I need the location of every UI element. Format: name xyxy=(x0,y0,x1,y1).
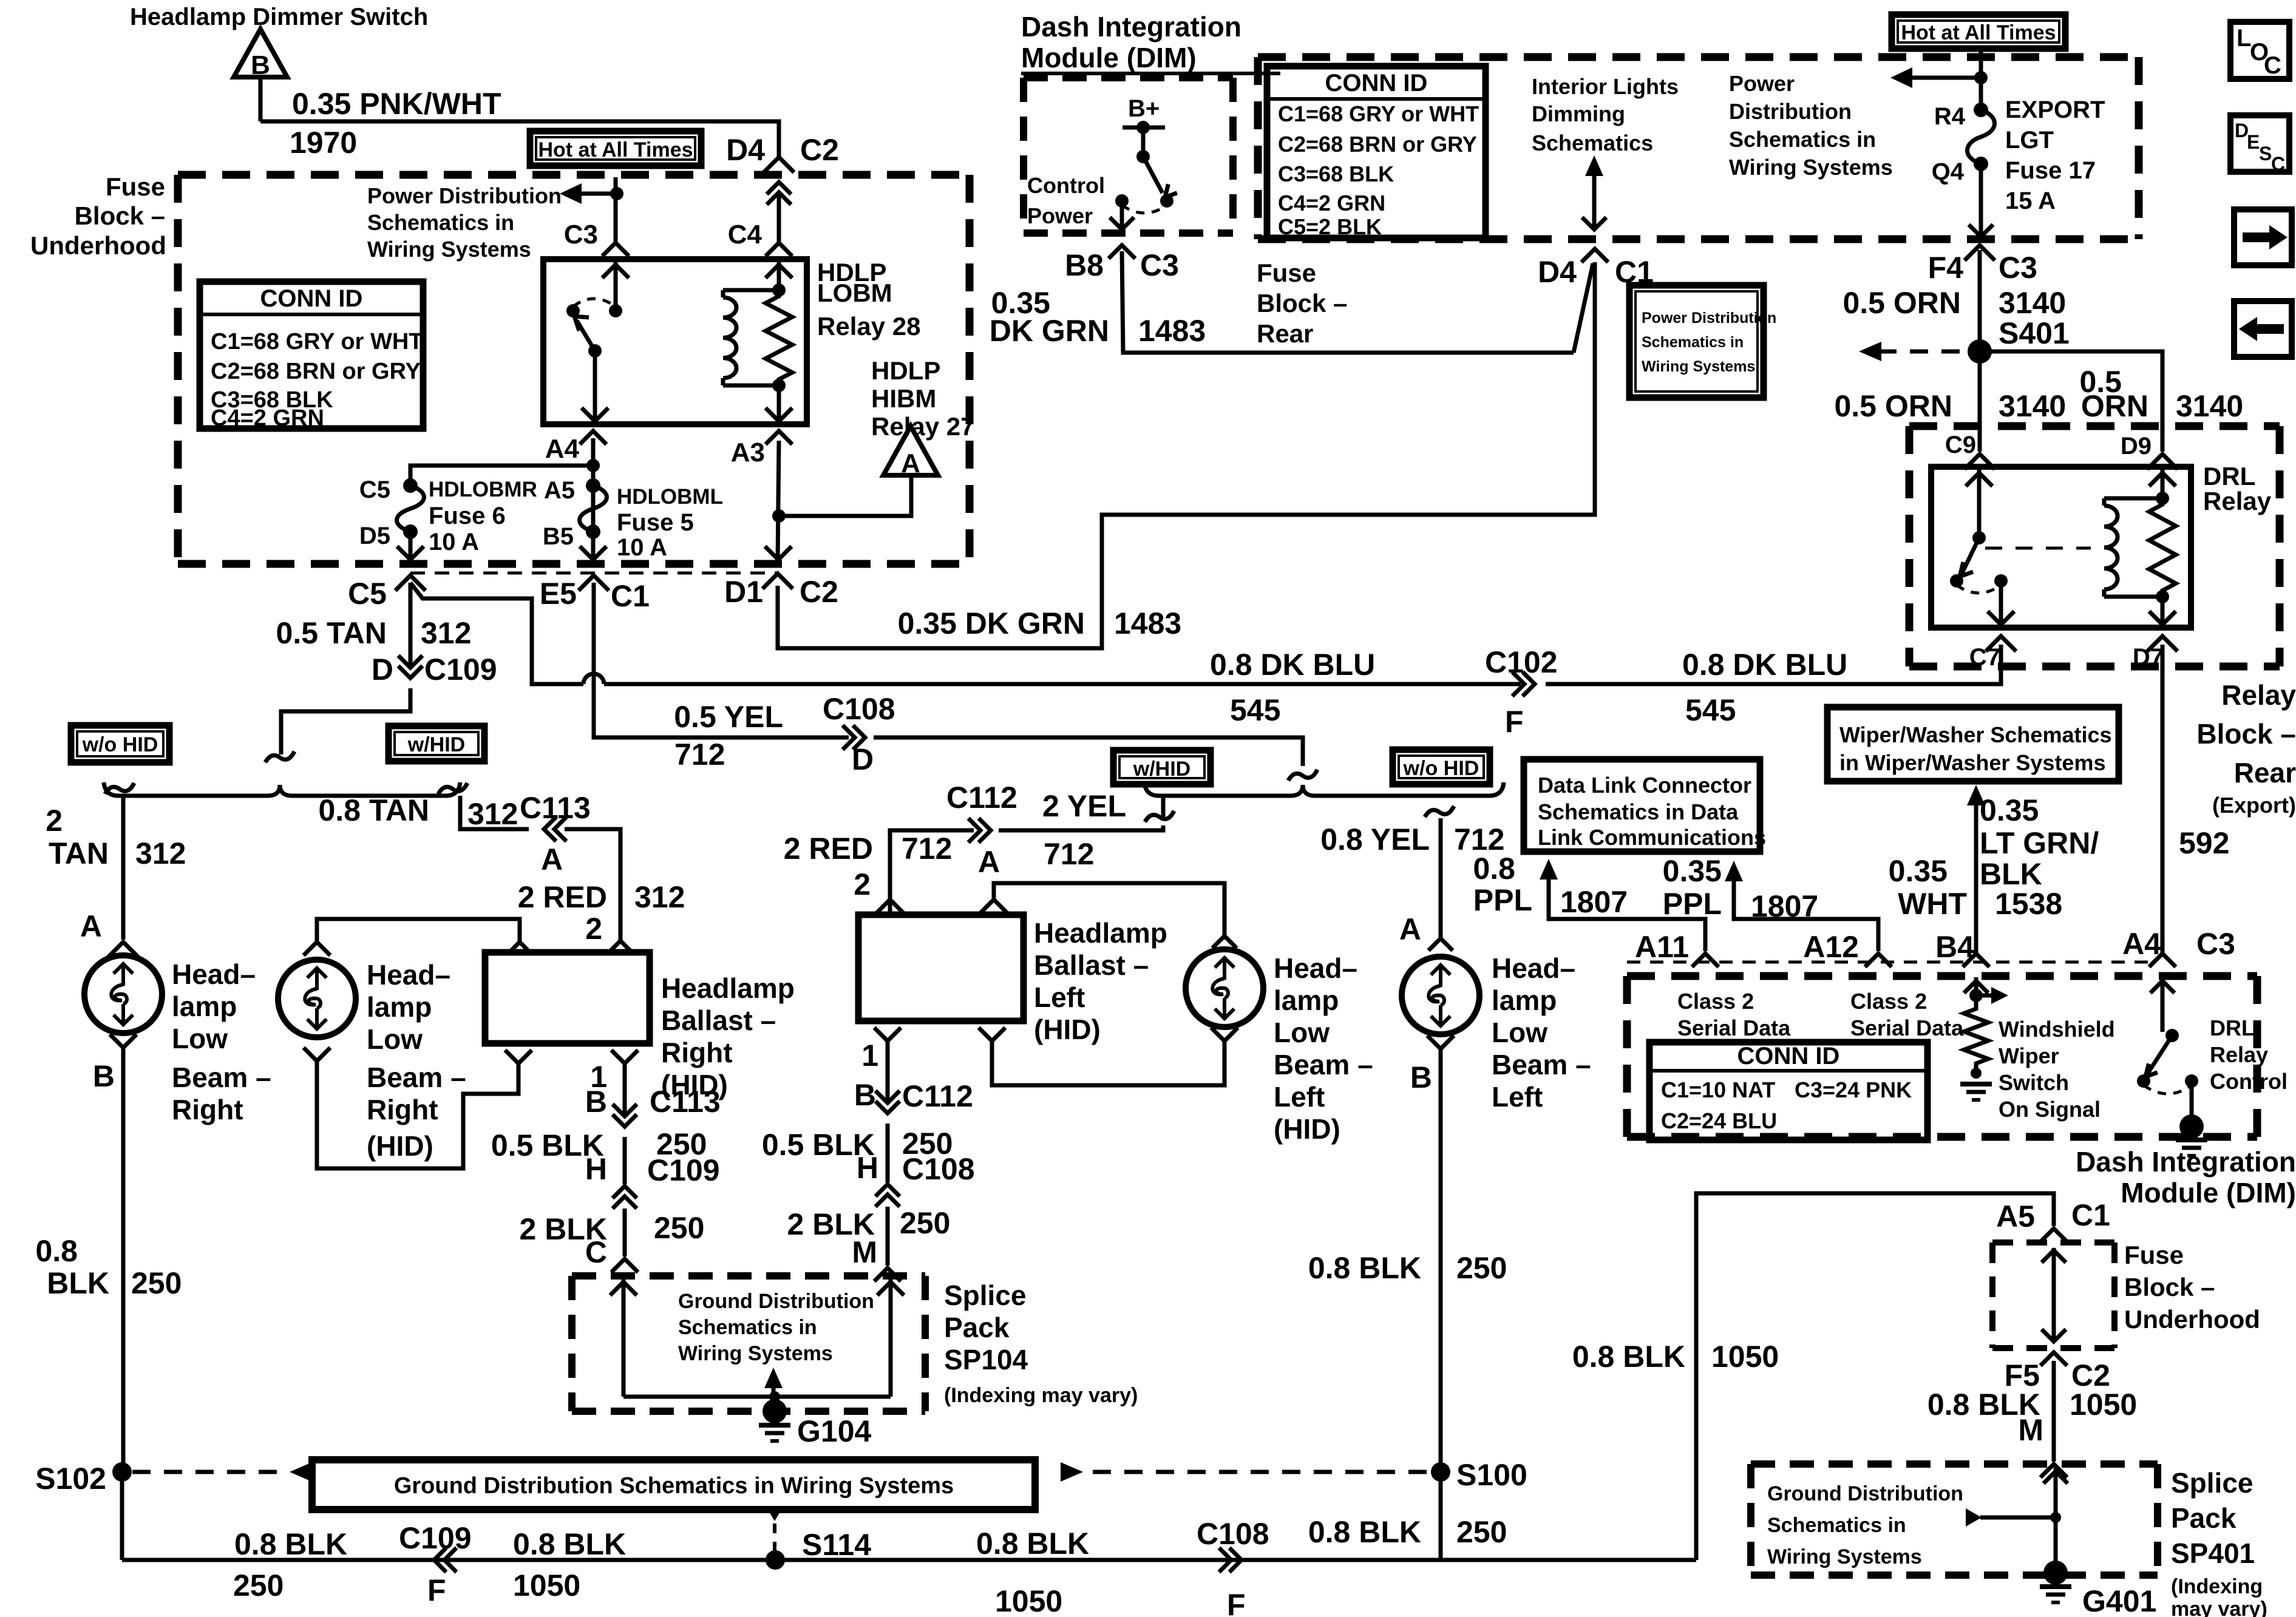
connector C112 A (feed) xyxy=(979,818,991,842)
relay 28 switch contact dot xyxy=(566,304,580,317)
svg-text:D4: D4 xyxy=(1538,255,1577,289)
svg-text:C3=24 PNK: C3=24 PNK xyxy=(1795,1077,1912,1102)
svg-text:Block –: Block – xyxy=(1257,289,1347,317)
svg-text:C2=68 BRN or GRY: C2=68 BRN or GRY xyxy=(1278,132,1477,157)
DIM connector row thin dashes xyxy=(1627,961,2152,964)
wiper switch signal input xyxy=(1974,977,1978,1003)
arrow into ground distribution box (left) xyxy=(290,1462,312,1482)
connector left HID bulb bottom xyxy=(1211,1028,1238,1041)
svg-text:Hot at All Times: Hot at All Times xyxy=(1901,21,2056,44)
svg-text:L: L xyxy=(2237,25,2251,52)
svg-text:WHT: WHT xyxy=(1898,887,1967,921)
svg-text:lamp: lamp xyxy=(1492,985,1557,1016)
svg-text:C112: C112 xyxy=(902,1079,973,1113)
connector C into SP104 xyxy=(611,1259,638,1272)
relay 28 switch blade xyxy=(577,320,595,351)
connector D7 xyxy=(2147,636,2178,651)
svg-text:E: E xyxy=(2247,131,2260,153)
relay box HDLP LOBM Relay 28 xyxy=(543,259,807,424)
relay 28 resistor xyxy=(766,290,792,385)
wire S401 to C9 xyxy=(1978,351,1982,452)
svg-text:0.8 BLK: 0.8 BLK xyxy=(513,1527,626,1561)
svg-text:592: 592 xyxy=(2179,826,2229,860)
connector C9 xyxy=(1965,454,1995,469)
wire ballast left pin B to C112 xyxy=(886,1041,890,1101)
SP104 bus xyxy=(623,1395,891,1399)
wire 0.8 TAN 312 to C113 xyxy=(460,796,529,829)
svg-text:DRL: DRL xyxy=(2210,1015,2255,1040)
svg-text:C109: C109 xyxy=(647,1153,720,1187)
wire C5 to option brace xyxy=(281,688,410,754)
svg-text:R4: R4 xyxy=(1934,103,1966,130)
svg-text:Beam –: Beam – xyxy=(172,1062,271,1093)
wiper pull resistor xyxy=(1964,1003,1988,1070)
svg-text:1538: 1538 xyxy=(1995,887,2062,921)
dashed reference from S401 xyxy=(1878,350,1960,354)
svg-text:B: B xyxy=(1410,1060,1432,1094)
svg-text:Interior Lights: Interior Lights xyxy=(1532,74,1679,99)
option brace 1 xyxy=(104,782,460,796)
svg-text:lamp: lamp xyxy=(1274,985,1339,1016)
splice pack SP104 dashed box xyxy=(572,1272,925,1280)
wire 0.35 WHT 1538 B4 xyxy=(1967,785,1985,805)
svg-text:0.8: 0.8 xyxy=(35,1234,78,1268)
svg-text:F: F xyxy=(427,1573,446,1607)
connector C4 into relay xyxy=(766,243,792,256)
svg-text:C9: C9 xyxy=(1945,432,1976,458)
connector A5/C1 xyxy=(2040,1229,2067,1242)
diagonal into D4/C1 xyxy=(1574,263,1593,353)
connector B left low beam xyxy=(1427,1036,1454,1049)
DRL relay switch contacts xyxy=(1950,574,1963,588)
svg-text:712: 712 xyxy=(1044,837,1094,871)
fuse EXPORT LGT Fuse 17 xyxy=(1974,103,1988,117)
fuse block underhood dashed outline xyxy=(178,171,970,179)
wire 2 RED 712 to left ballast xyxy=(890,830,974,915)
svg-text:Dimming: Dimming xyxy=(1532,101,1625,126)
relay 28 switch dashed arc xyxy=(573,299,616,307)
svg-text:C2: C2 xyxy=(800,575,838,609)
svg-text:F: F xyxy=(1227,1588,1246,1617)
connector C112 (ground side) xyxy=(875,1101,900,1113)
fuse 5 HDLOBML xyxy=(586,478,600,493)
svg-text:ORN: ORN xyxy=(2081,389,2148,423)
svg-text:0.8 BLK: 0.8 BLK xyxy=(976,1527,1089,1561)
svg-text:w/HID: w/HID xyxy=(407,733,465,756)
svg-text:(HID): (HID) xyxy=(367,1130,433,1162)
wire A4 branch to fuse 6 xyxy=(410,466,593,486)
svg-text:Power Distribution: Power Distribution xyxy=(367,183,562,208)
svg-text:B8: B8 xyxy=(1065,248,1104,282)
svg-text:Ground Distribution Schematics: Ground Distribution Schematics in Wiring… xyxy=(394,1473,954,1499)
svg-text:HDLOBML: HDLOBML xyxy=(617,485,723,509)
svg-text:C3: C3 xyxy=(1140,248,1179,282)
box Power Distribution Schematics in Wiring Systems (ref) xyxy=(1629,285,1764,398)
svg-text:545: 545 xyxy=(1685,693,1736,727)
wire ballast right pin B to C113 xyxy=(623,1063,627,1114)
svg-text:F4: F4 xyxy=(1928,251,1964,285)
flag w/HID (left) xyxy=(389,726,484,761)
wiper signal arrow xyxy=(1976,994,1994,998)
svg-text:712: 712 xyxy=(674,737,725,771)
DIM top dashed box xyxy=(1024,74,1233,81)
svg-text:A3: A3 xyxy=(731,438,765,467)
svg-text:S: S xyxy=(2259,143,2272,164)
wire 0.8 BLK 250 right low beam to S102 xyxy=(121,1048,126,1472)
relay 28 coil top wire xyxy=(723,288,779,293)
svg-text:PPL: PPL xyxy=(1473,883,1532,917)
svg-text:0.35 DK GRN: 0.35 DK GRN xyxy=(898,606,1085,640)
svg-text:3140: 3140 xyxy=(1999,389,2066,423)
wire C3 feed xyxy=(614,177,618,242)
svg-text:Headlamp: Headlamp xyxy=(661,972,795,1004)
svg-text:Ballast –: Ballast – xyxy=(1034,949,1149,981)
control power output xyxy=(1120,201,1124,231)
svg-text:Beam –: Beam – xyxy=(1492,1049,1591,1080)
off-page triangle B (headlamp dimmer switch) xyxy=(234,29,287,77)
ground symbol G401 xyxy=(2040,1584,2071,1589)
arrow out of ground distribution box (right) xyxy=(1061,1462,1083,1482)
wire 0.8 YEL 712 to left low beam xyxy=(1439,818,1443,940)
connector 2 right ballast xyxy=(610,941,631,951)
svg-text:Right: Right xyxy=(661,1037,733,1068)
svg-text:2 YEL: 2 YEL xyxy=(1042,789,1126,823)
svg-text:S100: S100 xyxy=(1456,1458,1527,1492)
wire 0.8 DK BLU 545 right section xyxy=(1546,651,2001,684)
wire 0.8 BLK 1050 M xyxy=(2052,1361,2056,1462)
svg-text:Wiper/Washer Schematics: Wiper/Washer Schematics xyxy=(1839,722,2112,747)
wire 0.5 YEL 712 from E5 xyxy=(594,583,849,737)
svg-text:B: B xyxy=(93,1059,115,1093)
svg-text:C102: C102 xyxy=(1485,645,1558,679)
SP104 left leg xyxy=(622,1277,626,1397)
svg-text:G401: G401 xyxy=(2082,1584,2156,1617)
wire 0.5 BLK 250 right xyxy=(623,1137,627,1184)
svg-text:Fuse 6: Fuse 6 xyxy=(429,503,506,529)
svg-text:1050: 1050 xyxy=(995,1584,1062,1617)
svg-text:C1: C1 xyxy=(2071,1198,2110,1232)
svg-text:Serial Data: Serial Data xyxy=(1850,1015,1964,1040)
fuse block ref double arrow xyxy=(2052,1248,2056,1343)
LOC box xyxy=(2230,22,2289,79)
svg-text:0.8 BLK: 0.8 BLK xyxy=(234,1527,347,1561)
svg-text:3140: 3140 xyxy=(2176,389,2243,423)
splice S114 xyxy=(766,1550,785,1570)
svg-text:H: H xyxy=(857,1151,878,1185)
connector C113 (ground side) xyxy=(613,1114,637,1127)
svg-text:0.5 ORN: 0.5 ORN xyxy=(1834,389,1952,423)
DRL control ground xyxy=(2190,1081,2194,1122)
splice dot S401 xyxy=(1968,339,1992,364)
svg-text:Relay: Relay xyxy=(2203,487,2272,515)
ground symbol G104 xyxy=(759,1423,790,1428)
ground dot G104 xyxy=(763,1399,787,1423)
svg-text:Headlamp Dimmer Switch: Headlamp Dimmer Switch xyxy=(130,4,428,30)
svg-text:1050: 1050 xyxy=(513,1568,580,1602)
wire right HID bulb low side jog to ballast xyxy=(317,1061,518,1168)
svg-text:S401: S401 xyxy=(1999,316,2070,350)
connector C109 F (bottom) xyxy=(434,1548,446,1572)
svg-text:0.35: 0.35 xyxy=(1663,854,1722,888)
connector D9 xyxy=(2147,454,2178,469)
svg-text:M: M xyxy=(852,1235,877,1269)
svg-text:10 A: 10 A xyxy=(429,529,479,555)
svg-text:lamp: lamp xyxy=(172,991,237,1022)
svg-text:Pack: Pack xyxy=(2171,1502,2237,1534)
wire right HID bulb top to ballast xyxy=(317,919,520,944)
svg-text:DK GRN: DK GRN xyxy=(990,314,1109,348)
connector M into SP401 xyxy=(2040,1464,2067,1477)
wire A4 to fuses xyxy=(591,438,596,532)
fuse block rear / export dashed outline xyxy=(1258,53,2139,61)
ballast box headlamp ballast left HID xyxy=(858,915,1024,1021)
connector E5/C1 xyxy=(579,575,609,591)
svg-text:PPL: PPL xyxy=(1663,887,1722,921)
svg-text:0.8 YEL: 0.8 YEL xyxy=(1320,822,1430,856)
svg-text:Wiring Systems: Wiring Systems xyxy=(1729,155,1893,180)
svg-text:D1: D1 xyxy=(724,575,763,609)
svg-text:C1=10 NAT: C1=10 NAT xyxy=(1661,1077,1775,1102)
connector F5/C2 xyxy=(2040,1352,2067,1366)
svg-text:Module (DIM): Module (DIM) xyxy=(2121,1177,2296,1209)
svg-text:C1=68 GRY or WHT: C1=68 GRY or WHT xyxy=(211,329,423,354)
conn id table (DIM) xyxy=(1649,1042,1927,1140)
power distribution arrow (export) xyxy=(1890,67,1912,88)
svg-text:Relay 28: Relay 28 xyxy=(817,312,920,341)
wire 0.5 TAN 312 from C5 xyxy=(409,583,413,666)
flag w/o HID (left) xyxy=(71,725,169,762)
DRL relay resistor xyxy=(2149,498,2176,597)
svg-text:HDLP: HDLP xyxy=(871,356,940,385)
svg-text:D9: D9 xyxy=(2121,433,2152,459)
svg-text:may vary): may vary) xyxy=(2171,1598,2267,1617)
squiggle right branch 2 xyxy=(1425,806,1454,817)
svg-text:Head–: Head– xyxy=(172,958,256,990)
svg-text:Wiring Systems: Wiring Systems xyxy=(367,237,531,262)
svg-text:(HID): (HID) xyxy=(1274,1113,1340,1145)
hop over E5 wire xyxy=(583,674,604,684)
svg-text:Schematics in Data: Schematics in Data xyxy=(1538,799,1739,824)
previous page arrow box xyxy=(2234,301,2292,357)
svg-text:D: D xyxy=(372,653,393,686)
svg-text:Wiper: Wiper xyxy=(1999,1043,2059,1068)
svg-text:1807: 1807 xyxy=(1751,889,1818,923)
svg-text:Fuse 5: Fuse 5 xyxy=(617,509,694,536)
svg-text:S102: S102 xyxy=(35,1462,106,1496)
DRL relay coil xyxy=(2102,498,2107,506)
svg-text:0.8 BLK: 0.8 BLK xyxy=(1308,1515,1421,1549)
wire hot feed to export fuse xyxy=(1979,49,1983,110)
wire from triangle B xyxy=(259,77,263,121)
svg-text:CONN ID: CONN ID xyxy=(1325,70,1428,97)
svg-text:Schematics in: Schematics in xyxy=(678,1316,817,1339)
svg-text:0.5 TAN: 0.5 TAN xyxy=(276,616,387,650)
svg-text:M: M xyxy=(2018,1413,2043,1447)
box Wiper/Washer Schematics in Wiper/Washer Systems xyxy=(1827,707,2119,781)
option squiggle above brace 2 xyxy=(1288,770,1317,781)
option squiggle above brace 1 xyxy=(265,751,294,762)
svg-text:Left: Left xyxy=(1274,1081,1325,1113)
wire 0.35 DK GRN 1483 from B8 xyxy=(1122,251,1574,353)
svg-text:A5: A5 xyxy=(544,477,575,504)
flag Hot at All Times (left) xyxy=(530,131,701,166)
SP104 right leg xyxy=(889,1277,893,1397)
svg-text:712: 712 xyxy=(902,832,952,866)
svg-text:Fuse 17: Fuse 17 xyxy=(2005,157,2096,184)
svg-text:CONN ID: CONN ID xyxy=(1737,1043,1840,1070)
fuse block underhood ref dashed box xyxy=(1992,1239,2114,1246)
svg-text:0.35: 0.35 xyxy=(1889,854,1948,888)
svg-text:D7: D7 xyxy=(2133,644,2164,671)
svg-text:250: 250 xyxy=(900,1206,950,1240)
svg-text:Right: Right xyxy=(172,1094,243,1125)
svg-text:0.35: 0.35 xyxy=(1980,793,2039,827)
svg-text:A4: A4 xyxy=(2122,927,2161,961)
bulb headlamp low beam left xyxy=(1402,957,1479,1034)
wire 0.35 PPL 1807 A12 xyxy=(1725,861,1743,881)
svg-text:Relay: Relay xyxy=(2210,1042,2268,1067)
svg-text:2: 2 xyxy=(854,867,871,901)
svg-text:Schematics: Schematics xyxy=(1532,131,1653,155)
svg-text:0.8 BLK: 0.8 BLK xyxy=(1572,1340,1685,1374)
relay 28 pin A3 wire xyxy=(777,385,781,423)
svg-text:Power: Power xyxy=(1729,71,1795,96)
svg-text:Left: Left xyxy=(1034,981,1085,1013)
squiggle left branch 1 xyxy=(105,783,134,794)
connector C109 D xyxy=(398,666,423,678)
svg-text:G104: G104 xyxy=(797,1414,872,1448)
connector C102 F xyxy=(1523,672,1535,696)
svg-text:Head–: Head– xyxy=(1492,952,1575,984)
DIM control power switch xyxy=(1123,126,1165,130)
svg-text:Wiring Systems: Wiring Systems xyxy=(1767,1545,1922,1568)
wire C5 jog to DK BLU xyxy=(410,583,583,684)
svg-text:Relay 27: Relay 27 xyxy=(871,412,974,441)
svg-text:C1=68 GRY or WHT: C1=68 GRY or WHT xyxy=(1278,101,1479,126)
svg-text:Relay: Relay xyxy=(2221,679,2296,711)
svg-text:250: 250 xyxy=(654,1211,704,1245)
svg-text:w/HID: w/HID xyxy=(1133,758,1190,781)
connector D1/C2 xyxy=(763,574,793,589)
svg-text:Block –: Block – xyxy=(2124,1273,2215,1301)
DRL relay switch output xyxy=(1999,581,2003,626)
svg-text:Windshield: Windshield xyxy=(1999,1017,2115,1042)
svg-text:DRL: DRL xyxy=(2203,462,2255,490)
junction dot on C3 feed xyxy=(610,187,623,200)
DRL relay box xyxy=(1931,467,2191,628)
svg-text:Fuse: Fuse xyxy=(1257,259,1316,287)
relay 28 pin C3 arrow xyxy=(614,260,618,311)
DIM bottom dashed box xyxy=(1627,972,2257,980)
svg-text:2 RED: 2 RED xyxy=(784,832,873,866)
svg-text:Link Communications: Link Communications xyxy=(1538,825,1766,850)
svg-text:15 A: 15 A xyxy=(2005,188,2056,214)
svg-text:A: A xyxy=(541,842,563,876)
connector D4/C1 (fuse block rear) xyxy=(1581,249,1608,262)
svg-text:S114: S114 xyxy=(802,1528,871,1562)
svg-text:545: 545 xyxy=(1230,693,1280,727)
connector M into SP104 xyxy=(874,1268,901,1281)
wire 2 TAN 312 to right low beam xyxy=(121,796,126,940)
svg-text:Low: Low xyxy=(1274,1017,1330,1048)
svg-text:w/o HID: w/o HID xyxy=(1403,757,1479,780)
box Data Link Connector Schematics in Data Link Communications xyxy=(1524,759,1760,852)
svg-text:C108: C108 xyxy=(902,1152,975,1186)
svg-text:w/o HID: w/o HID xyxy=(82,733,158,756)
next page arrow box xyxy=(2234,209,2292,265)
connector A12 xyxy=(1865,954,1892,967)
wire 2 YEL 712 to option brace 2 xyxy=(999,825,1163,830)
svg-text:BLK: BLK xyxy=(1980,857,2042,891)
connector ballast right bottom-left pin xyxy=(505,1050,532,1063)
DRL relay pin D7 wire xyxy=(2161,597,2165,626)
svg-text:Schematics in: Schematics in xyxy=(367,210,514,235)
SP401 reference arrow xyxy=(1980,1516,2056,1520)
connector right HID bulb bottom xyxy=(304,1048,330,1061)
wire S102 to bottom rail xyxy=(120,1472,124,1560)
svg-text:C109: C109 xyxy=(424,653,497,686)
dashed reference S102 xyxy=(132,1470,288,1474)
wire 0.8 BLK 250 left low beam to S100 xyxy=(1439,1049,1443,1472)
svg-text:312: 312 xyxy=(634,880,685,914)
svg-text:B: B xyxy=(251,50,270,80)
squiggle left branch 2 xyxy=(1145,811,1174,822)
svg-text:TAN: TAN xyxy=(49,836,109,870)
svg-text:Beam –: Beam – xyxy=(1274,1049,1373,1080)
svg-text:(Export): (Export) xyxy=(2212,793,2296,818)
svg-text:C: C xyxy=(585,1235,607,1269)
svg-text:1: 1 xyxy=(861,1039,878,1073)
wire S100 riser xyxy=(1439,1472,1443,1560)
svg-text:Headlamp: Headlamp xyxy=(1034,917,1167,949)
relay 28 coil bottom wire xyxy=(723,384,779,388)
svg-text:B+: B+ xyxy=(1128,95,1160,122)
svg-text:A4: A4 xyxy=(545,434,580,464)
wire 712 to left option brace xyxy=(874,737,1303,766)
svg-text:C108: C108 xyxy=(1197,1517,1269,1551)
DRL relay switch blade xyxy=(1962,538,1979,573)
svg-text:0.8 DK BLU: 0.8 DK BLU xyxy=(1210,648,1375,682)
svg-text:0.8 DK BLU: 0.8 DK BLU xyxy=(1682,648,1847,682)
interior lights reference arrow xyxy=(1585,155,1603,176)
connector D4/C2 into fuse block xyxy=(764,157,794,172)
relay 28 switch common dot xyxy=(609,304,622,317)
svg-text:LT GRN/: LT GRN/ xyxy=(1980,826,2099,860)
svg-text:C3: C3 xyxy=(564,220,598,249)
svg-text:D5: D5 xyxy=(359,523,390,549)
flag w/o HID (centre) xyxy=(1393,750,1490,784)
wire 0.35 LT GRN/BLK 592 D7 xyxy=(2161,645,2165,956)
svg-text:0.8 TAN: 0.8 TAN xyxy=(319,793,429,827)
svg-text:Rear: Rear xyxy=(1257,319,1313,348)
svg-text:C112: C112 xyxy=(946,781,1017,815)
svg-text:A11: A11 xyxy=(1635,930,1689,964)
svg-text:Ballast –: Ballast – xyxy=(661,1005,776,1036)
off-page triangle A (HDLP HIBM relay 27) xyxy=(883,426,938,475)
svg-text:Low: Low xyxy=(1492,1017,1547,1048)
svg-text:1050: 1050 xyxy=(1711,1340,1779,1374)
svg-text:Power: Power xyxy=(1027,203,1093,228)
svg-text:(HID): (HID) xyxy=(1034,1014,1101,1045)
wire left HID bulb low side to ballast xyxy=(992,1041,1224,1085)
svg-text:On Signal: On Signal xyxy=(1999,1097,2101,1122)
svg-text:0.35 PNK/WHT: 0.35 PNK/WHT xyxy=(292,87,501,121)
svg-text:Switch: Switch xyxy=(1999,1070,2069,1095)
svg-text:Schematics in: Schematics in xyxy=(1729,127,1876,152)
wire rail riser to DIM ground xyxy=(1696,1193,2054,1560)
squiggle right branch 1 xyxy=(438,783,467,794)
dashed stem to S114 xyxy=(766,1507,783,1521)
